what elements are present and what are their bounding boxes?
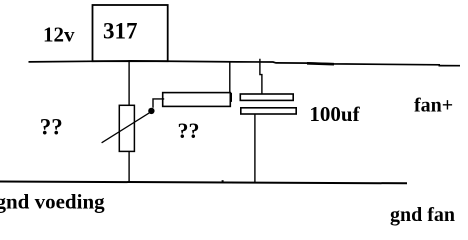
svg-text:??: ??: [178, 118, 200, 143]
capacitor C1 top plate: [240, 94, 293, 100]
wire top rail: [29, 61, 441, 65]
potentiometer R1 body: [119, 105, 134, 151]
junction dot on wiper: [148, 108, 154, 114]
svg-text:fan+: fan+: [414, 95, 453, 117]
svg-text:317: 317: [103, 18, 138, 43]
svg-text:12v: 12v: [43, 23, 75, 47]
ground rail bottom: [0, 182, 407, 184]
junction nub on ground rail: [222, 180, 224, 182]
regulator U1 box 317: [93, 5, 168, 61]
svg-text:100uf: 100uf: [309, 102, 360, 126]
wire top rail overlap segment: [307, 62, 334, 65]
capacitor C1 bottom plate: [241, 108, 296, 114]
wire top rail right end segment: [439, 65, 461, 67]
svg-text:gnd voeding: gnd voeding: [0, 189, 105, 213]
resistor R2 body: [163, 93, 231, 107]
svg-text:gnd fan: gnd fan: [390, 204, 455, 226]
resistor R2 thick right edge: [230, 93, 232, 102]
svg-text:??: ??: [40, 114, 63, 139]
potentiometer R1 wiper arrow diagonal: [102, 112, 152, 143]
wire rail to capacitor C1 top: [260, 59, 262, 94]
wire wiper to resistor R2: [153, 99, 164, 108]
wire rail to potentiometer top: [128, 62, 130, 106]
wire capacitor bottom to ground rail: [254, 114, 256, 182]
wire rail to resistor R2 right: [229, 62, 231, 93]
wire potentiometer bottom to ground rail: [128, 151, 130, 182]
